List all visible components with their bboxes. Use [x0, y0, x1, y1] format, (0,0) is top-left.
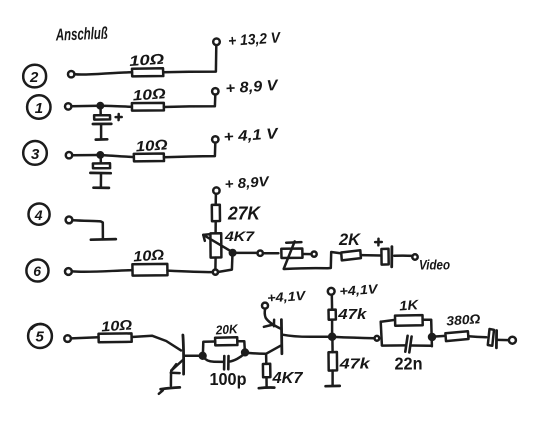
- terminal pin 4: [66, 217, 73, 224]
- pin label 5: [28, 324, 52, 348]
- wire 4K7 to ground: [265, 377, 268, 386]
- node junction row1: [98, 103, 103, 108]
- wire pin1 to junction: [72, 105, 100, 108]
- wire pot bottom to node A: [214, 258, 217, 270]
- wire Q2 emitter out: [283, 335, 330, 337]
- node trimmer right (open): [312, 252, 317, 257]
- ground (row 1 cap): [96, 138, 107, 141]
- terminal pin 2: [68, 71, 74, 77]
- node A (pot wiper junction): [230, 250, 236, 256]
- svg-text:10Ω: 10Ω: [101, 316, 133, 334]
- pin label 3: [23, 141, 47, 165]
- svg-text:4K7: 4K7: [271, 370, 303, 387]
- wire R to +13,2V rail: [163, 45, 216, 72]
- wire trimmer right to open circle: [303, 253, 312, 256]
- svg-text:+ 13,2 V: + 13,2 V: [228, 29, 283, 50]
- wire 47K bottom to ground: [331, 371, 334, 385]
- transistor Q1: [171, 335, 184, 374]
- ground (row 3 cap): [94, 186, 109, 189]
- wire node D to loop input: [334, 337, 374, 338]
- svg-text:2K: 2K: [338, 230, 362, 249]
- ground (4K7): [259, 386, 275, 389]
- wire wiper down to node: [218, 253, 233, 272]
- resistor 47K (bottom): [329, 352, 371, 373]
- terminal pin 6: [65, 268, 72, 275]
- wire 47K to node D: [331, 320, 334, 335]
- transistor Q2: [264, 309, 282, 354]
- trimmer capacitor: [281, 241, 302, 269]
- svg-text:Video: Video: [419, 257, 450, 273]
- node junction row6: [213, 270, 218, 275]
- svg-text:22n: 22n: [395, 354, 423, 374]
- svg-text:10Ω: 10Ω: [133, 247, 166, 265]
- wire R to node A: [168, 271, 213, 273]
- wire 2K to cap: [361, 254, 381, 257]
- capacitor (output coupling): [488, 329, 497, 348]
- wire 1K right side: [430, 320, 433, 346]
- capacitor (electrolytic, row 3): [90, 155, 110, 173]
- pin label 2: [23, 65, 46, 88]
- wire node D to 47K bottom: [331, 339, 334, 353]
- svg-text:4K7: 4K7: [224, 229, 256, 244]
- pin label 4: [28, 203, 49, 224]
- node loop input (open): [375, 336, 380, 341]
- terminal +8,9V (27K rail): [213, 187, 219, 193]
- ground (pin 4 stub): [91, 238, 116, 241]
- capacitor (electrolytic, video out): [375, 239, 392, 267]
- wire rail to 47K top: [331, 295, 334, 310]
- wire node C to Q2 base: [246, 353, 266, 354]
- svg-text:3: 3: [31, 146, 40, 163]
- resistor 10Ω (row 3): [134, 137, 169, 161]
- svg-text:+4,1V: +4,1V: [267, 288, 307, 306]
- pin label 1: [27, 95, 50, 118]
- resistor 10Ω (row 2): [129, 52, 166, 77]
- resistor 47K (top): [329, 306, 368, 323]
- node E (loop output): [429, 334, 435, 340]
- wire cap to ground: [100, 174, 103, 187]
- svg-text:47k: 47k: [339, 356, 371, 373]
- terminal +4,1V: [212, 136, 218, 142]
- resistor 10Ω (row 1): [132, 86, 167, 110]
- potentiometer 4K7: [203, 229, 255, 258]
- svg-text:10Ω: 10Ω: [129, 52, 166, 70]
- node D (divider tap): [329, 334, 335, 340]
- capacitor (electrolytic, row 1): [93, 106, 122, 124]
- terminal +4,1V (Q2 collector): [262, 303, 268, 309]
- resistor 380Ω: [445, 311, 480, 341]
- resistor 4K7 (Q2 base): [263, 354, 304, 387]
- svg-text:4: 4: [34, 207, 43, 223]
- wire pin6 to R 10Ω: [72, 270, 132, 272]
- wire R to +8,9V rail: [164, 95, 215, 107]
- resistor 10Ω (row 6): [132, 247, 167, 275]
- terminal output: [509, 337, 516, 344]
- wire 380Ω to coupling cap: [468, 336, 486, 337]
- capacitor 22n: [382, 336, 431, 353]
- terminal Video: [412, 254, 417, 259]
- wire R to +4,1V rail: [164, 143, 215, 158]
- wire to trimmer cap: [263, 252, 278, 255]
- pin label 6: [26, 259, 48, 281]
- resistor 1K: [381, 297, 431, 345]
- svg-text:+ 4,1 V: + 4,1 V: [223, 125, 280, 146]
- terminal +13,2V: [213, 39, 220, 46]
- svg-text:380Ω: 380Ω: [446, 311, 481, 328]
- svg-text:10Ω: 10Ω: [132, 86, 167, 104]
- svg-text:Anschluß: Anschluß: [55, 24, 108, 45]
- wire trimmer rotor to 2K: [284, 252, 341, 269]
- wire cap to ground: [100, 125, 103, 139]
- wire junction to R 10Ω: [101, 155, 134, 157]
- resistor 27K: [212, 204, 262, 224]
- node wiper output: [258, 251, 263, 256]
- svg-text:+4,1V: +4,1V: [339, 281, 379, 299]
- terminal pin 3: [66, 152, 72, 158]
- node B (Q1 collector): [200, 353, 206, 359]
- resistor 2K: [338, 230, 362, 260]
- svg-text:100p: 100p: [210, 369, 247, 389]
- wire pin5 to R 10Ω: [71, 337, 99, 338]
- svg-text:1: 1: [35, 100, 43, 117]
- wire pin4 stub: [73, 220, 103, 238]
- svg-text:5: 5: [36, 329, 45, 346]
- resistor 10Ω (row 5): [99, 316, 133, 342]
- svg-text:6: 6: [33, 263, 41, 279]
- wire cap to output terminal: [498, 339, 509, 342]
- node C (Q2 base net): [242, 350, 248, 356]
- svg-text:+ 8,9 V: + 8,9 V: [225, 77, 280, 98]
- ground (divider): [326, 385, 340, 388]
- wire R to Q1 base: [132, 336, 181, 351]
- wire rail to 27K: [214, 194, 217, 205]
- svg-text:20K: 20K: [214, 322, 239, 338]
- svg-text:47k: 47k: [337, 306, 367, 323]
- svg-text:10Ω: 10Ω: [135, 137, 169, 155]
- resistor 20K: [203, 322, 245, 355]
- wire 27K to pot: [214, 221, 217, 233]
- terminal pin 5: [64, 335, 71, 342]
- terminal pin 1: [65, 103, 71, 109]
- svg-text:27K: 27K: [227, 204, 262, 224]
- wire pin3 to junction: [72, 154, 99, 157]
- ground (Q1 emitter): [159, 387, 180, 393]
- wire pin2 to R 10Ω: [75, 72, 132, 74]
- wire node E to 380Ω: [433, 335, 445, 338]
- wire wiper to output circle: [234, 252, 258, 255]
- wire junction to R 10Ω: [101, 106, 132, 107]
- terminal +8,9V: [212, 88, 218, 94]
- wire Q1 emitter to ground: [170, 370, 173, 385]
- svg-text:1K: 1K: [399, 297, 420, 313]
- svg-text:2: 2: [29, 69, 39, 86]
- wire cap to video terminal: [394, 254, 412, 257]
- capacitor 100p: [203, 354, 245, 370]
- wire Q1 collector to node B: [184, 354, 200, 357]
- node junction row3: [98, 152, 103, 157]
- terminal +4,1V (47k rail): [328, 288, 335, 295]
- svg-text:+ 8,9V: + 8,9V: [224, 173, 271, 192]
